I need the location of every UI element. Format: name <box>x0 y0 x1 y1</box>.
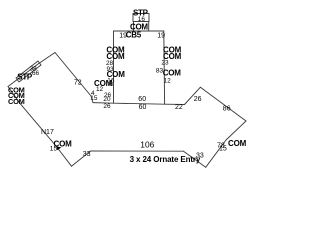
wire: tower left wall <box>113 31 115 103</box>
stoop rotated rect left (STP) <box>16 61 41 82</box>
wire: 15 wall up to COM corner <box>56 146 72 166</box>
wire: left ridge wall from COM corner to apex <box>8 53 55 87</box>
svg-text:23: 23 <box>161 59 169 66</box>
svg-text:22: 22 <box>175 104 183 111</box>
stoop rect top (STP/16) <box>133 14 149 22</box>
svg-text:19: 19 <box>157 32 165 39</box>
wire: COM COM COM left wall <box>8 87 20 104</box>
svg-text:COM: COM <box>8 97 25 106</box>
svg-text:60: 60 <box>138 96 146 103</box>
svg-text:STP: STP <box>17 73 33 82</box>
svg-text:33: 33 <box>83 151 91 158</box>
wire: stoop connector right <box>148 22 150 32</box>
wire: 26 diagonal wall up to right apex <box>185 87 201 104</box>
svg-text:60: 60 <box>139 104 147 111</box>
svg-text:106: 106 <box>140 140 154 150</box>
svg-text:26: 26 <box>103 103 111 110</box>
wire: 72 diagonal wall apex to hall <box>55 53 93 103</box>
wire: top wall of hall (60/60, 22) <box>93 103 185 105</box>
svg-text:15: 15 <box>90 95 98 102</box>
svg-text:86: 86 <box>223 105 231 112</box>
svg-text:12: 12 <box>96 86 104 93</box>
wire: stoop connector left <box>133 22 135 32</box>
wire: N17 diagonal wall <box>20 103 56 146</box>
wire: tower right wall <box>163 31 166 104</box>
svg-text:COM: COM <box>228 139 247 148</box>
node: 15 arrow marker bottom-left <box>57 146 62 150</box>
wire: tower top wall <box>114 30 164 32</box>
svg-text:12: 12 <box>164 77 171 84</box>
svg-text:3 x 24 Ornate Entry: 3 x 24 Ornate Entry <box>130 155 201 164</box>
svg-text:CB5: CB5 <box>126 31 142 40</box>
svg-text:72: 72 <box>74 79 82 86</box>
svg-text:26: 26 <box>194 96 202 103</box>
wire: 33 wall up-left <box>184 151 206 167</box>
svg-text:15: 15 <box>50 145 58 152</box>
svg-text:COM: COM <box>163 69 182 78</box>
svg-text:6: 6 <box>110 81 114 88</box>
wire: 33 wall down-left to lower left V <box>72 151 91 166</box>
wire: bottom wall 106 / Ornate Entry <box>91 150 184 152</box>
svg-text:66: 66 <box>32 70 40 77</box>
wire: 86 diagonal wall down to right corner <box>200 87 246 121</box>
svg-text:N17: N17 <box>41 129 54 136</box>
wire: 78/15 walls down-left to lower V <box>206 121 246 167</box>
svg-text:15: 15 <box>219 146 227 153</box>
